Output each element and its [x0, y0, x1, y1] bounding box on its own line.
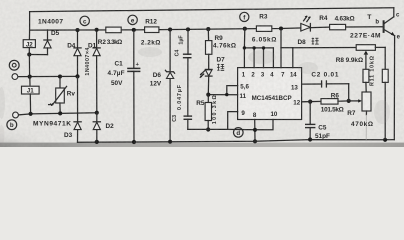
node R10 ground	[383, 138, 387, 142]
wire bottom ground bus	[78, 140, 395, 143]
resistor R12	[141, 19, 161, 47]
node R9 top on bus	[206, 27, 210, 31]
potentiometer R7	[349, 92, 371, 140]
node R3 right on bus	[279, 26, 283, 30]
wire main V+ bus	[30, 27, 384, 30]
wire bus to pin7 and pin14	[281, 29, 293, 68]
diode D3	[74, 76, 81, 142]
wire pin 10	[255, 120, 273, 130]
terminal a	[9, 60, 19, 79]
resistor R10	[382, 47, 388, 139]
LED D7	[200, 69, 212, 94]
resistor R2	[98, 27, 123, 46]
node C1 top on bus	[132, 28, 136, 32]
wire node line C3/R5/pin9	[188, 128, 255, 130]
wire pin 9	[228, 112, 238, 130]
node pin1 riser	[243, 46, 246, 49]
node Rv top	[58, 74, 62, 78]
wire bus to pins 1-4	[244, 29, 273, 68]
background page	[0, 0, 404, 147]
node pin2 riser	[252, 46, 255, 49]
node D7/R5 junction	[206, 93, 210, 97]
wire AC input line a	[18, 75, 78, 77]
node bridge AC-b	[95, 111, 99, 115]
diode D5	[44, 30, 51, 55]
node R7 wiper / R6 / C2 junction	[347, 99, 351, 103]
wire AC input line b	[18, 113, 97, 115]
zener diode D6	[165, 30, 174, 142]
wire J2/D5 bottom link	[29, 54, 47, 56]
transistor T	[384, 8, 395, 140]
label green char	[217, 64, 224, 71]
resistor R9	[206, 29, 212, 69]
node e	[128, 15, 137, 24]
resistor R8	[293, 45, 385, 64]
LED D8	[301, 16, 311, 31]
label red char	[312, 38, 319, 45]
node J2 bottom	[27, 52, 31, 56]
wire left column mid	[28, 55, 30, 77]
diode D2	[93, 113, 100, 142]
node R8 tap wiper	[364, 51, 369, 55]
scan grain overlay	[0, 0, 404, 147]
wire pin 5,6	[227, 86, 238, 95]
capacitor C3	[184, 116, 193, 129]
capacitor C4	[183, 29, 192, 116]
resistor R3	[252, 13, 277, 43]
diode D1	[93, 30, 100, 113]
node f	[240, 12, 249, 21]
resistor R4	[319, 15, 354, 30]
wire pin 11 to D7/R5 node	[208, 94, 237, 96]
node D6 bottom	[168, 140, 172, 144]
varistor Rv	[49, 77, 67, 114]
node bridge AC-a	[75, 74, 79, 78]
relay contact J2	[23, 30, 35, 54]
wire top relay/collector line	[30, 8, 394, 12]
node AC-a / J-column	[28, 75, 32, 79]
node pin8 ground	[253, 139, 257, 143]
node J1 bottom on AC-b line	[29, 112, 33, 116]
node D2 bottom on ground bus	[95, 140, 99, 144]
node C4 top on bus	[186, 27, 190, 31]
node pin8 mid	[253, 128, 257, 132]
node C5 bottom	[308, 137, 312, 141]
resistor R11	[363, 54, 369, 93]
node D1 top on bus	[95, 28, 99, 32]
node d	[234, 128, 244, 138]
capacitor C1	[127, 30, 140, 142]
relay contact J1	[22, 77, 40, 114]
wire pin 8 down to ground bus	[254, 120, 256, 142]
wire left column top corner down to bus node	[29, 12, 31, 31]
node c	[80, 16, 89, 25]
diode D4	[74, 30, 81, 76]
op-amp U1 MC14541BCP	[238, 68, 302, 120]
node R3 left on bus	[243, 27, 247, 31]
resistor R5	[205, 95, 211, 130]
node R5 bottom	[206, 127, 210, 131]
capacitor C5	[305, 102, 315, 140]
resistor R6	[302, 92, 349, 113]
node pin3 riser	[262, 46, 265, 49]
node pin11 wire	[225, 93, 228, 96]
terminal b	[7, 112, 19, 129]
node D6 top on bus	[168, 27, 172, 31]
node C1 bottom	[132, 140, 136, 144]
node Rv bottom	[58, 111, 62, 115]
node D4 top on bus	[75, 28, 79, 32]
capacitor C2	[302, 80, 349, 101]
node C5 top	[308, 100, 312, 104]
scan smudges	[0, 47, 390, 145]
